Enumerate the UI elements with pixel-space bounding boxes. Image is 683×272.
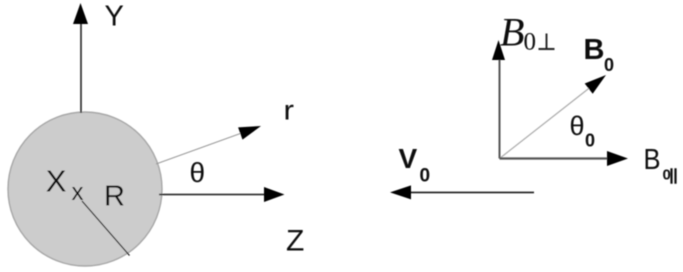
plasma sphere (gray circle) xyxy=(8,112,162,266)
svg-text:R: R xyxy=(104,181,125,213)
svg-text:0: 0 xyxy=(420,166,431,187)
svg-text:0: 0 xyxy=(524,28,537,55)
radius R wire xyxy=(82,201,130,256)
svg-text:0: 0 xyxy=(604,55,614,75)
B0par axis wire xyxy=(500,157,610,159)
r vector arrowhead xyxy=(238,126,261,140)
svg-text:0: 0 xyxy=(663,166,671,183)
V0 vector arrowhead xyxy=(390,185,411,199)
r vector wire xyxy=(156,130,250,164)
svg-text:Y: Y xyxy=(105,0,124,32)
B0perp arrowhead xyxy=(492,40,505,60)
label B0perp perpendicular symbol xyxy=(539,34,555,50)
B0 vector wire xyxy=(500,88,591,159)
B0par arrowhead xyxy=(607,151,628,166)
svg-text:r: r xyxy=(284,95,295,126)
B0 vector arrowhead xyxy=(585,75,606,94)
Y axis arrowhead xyxy=(73,3,88,24)
Y axis wire xyxy=(80,20,82,113)
svg-text:θ: θ xyxy=(570,111,585,141)
svg-text:0: 0 xyxy=(585,131,595,151)
V0 vector wire xyxy=(408,191,534,193)
svg-text:θ: θ xyxy=(190,157,206,188)
svg-text:B: B xyxy=(500,10,524,55)
label B0par parallel bars xyxy=(672,168,676,183)
svg-text:V: V xyxy=(399,143,418,174)
svg-text:B: B xyxy=(584,34,605,66)
svg-text:Z: Z xyxy=(286,225,304,258)
svg-text:x: x xyxy=(72,179,84,206)
svg-text:X: X xyxy=(46,164,67,199)
Z axis wire xyxy=(159,194,266,196)
Z axis arrowhead xyxy=(264,187,285,202)
svg-text:B: B xyxy=(644,144,661,176)
B0perp axis wire xyxy=(499,58,501,159)
